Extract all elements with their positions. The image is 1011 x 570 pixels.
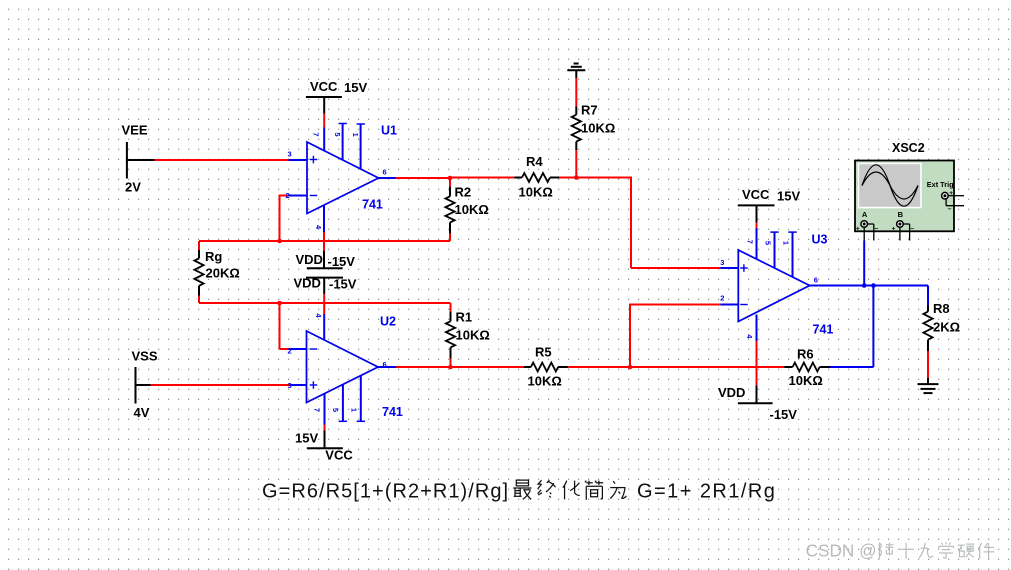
svg-text:U3: U3 bbox=[812, 233, 828, 247]
svg-text:7: 7 bbox=[313, 408, 322, 412]
svg-text:6: 6 bbox=[814, 275, 818, 284]
svg-text:3: 3 bbox=[288, 381, 292, 390]
svg-text:741: 741 bbox=[362, 198, 383, 212]
svg-text:A: A bbox=[862, 210, 868, 219]
svg-text:VCC: VCC bbox=[310, 79, 338, 94]
svg-text:U2: U2 bbox=[380, 315, 396, 329]
svg-text:7: 7 bbox=[745, 240, 754, 244]
svg-text:1: 1 bbox=[351, 133, 360, 137]
svg-text:R5: R5 bbox=[535, 345, 552, 360]
svg-text:15V: 15V bbox=[777, 189, 800, 204]
svg-text:6: 6 bbox=[383, 360, 387, 369]
svg-text:5: 5 bbox=[331, 408, 340, 412]
svg-text:XSC2: XSC2 bbox=[892, 141, 925, 155]
svg-text:-15V: -15V bbox=[770, 407, 798, 422]
svg-text:15V: 15V bbox=[344, 80, 367, 95]
svg-text:6: 6 bbox=[383, 168, 387, 177]
svg-text:+: + bbox=[892, 225, 896, 232]
svg-text:7: 7 bbox=[311, 132, 320, 136]
svg-text:2: 2 bbox=[286, 191, 290, 200]
svg-text:R6: R6 bbox=[797, 347, 814, 362]
svg-text:Rg: Rg bbox=[205, 249, 222, 264]
svg-text:2: 2 bbox=[288, 347, 292, 356]
svg-text:4V: 4V bbox=[134, 405, 150, 420]
svg-text:R1: R1 bbox=[456, 310, 473, 325]
svg-text:G=1+ 2R1/Rg: G=1+ 2R1/Rg bbox=[637, 481, 776, 503]
svg-text:5: 5 bbox=[333, 132, 342, 136]
svg-text:10KΩ: 10KΩ bbox=[456, 328, 490, 343]
svg-text:10KΩ: 10KΩ bbox=[519, 184, 553, 199]
svg-text:-15V: -15V bbox=[329, 277, 357, 292]
svg-text:R4: R4 bbox=[526, 154, 543, 169]
svg-text:VSS: VSS bbox=[132, 348, 158, 363]
svg-text:VCC: VCC bbox=[742, 187, 770, 202]
svg-text:R2: R2 bbox=[455, 185, 472, 200]
svg-text:+: + bbox=[856, 225, 860, 232]
svg-text:CSDN @: CSDN @ bbox=[806, 541, 877, 561]
svg-text:−: − bbox=[948, 206, 952, 213]
svg-text:1: 1 bbox=[350, 408, 359, 412]
svg-text:10KΩ: 10KΩ bbox=[528, 374, 562, 389]
svg-text:Ext Trig: Ext Trig bbox=[927, 180, 954, 189]
svg-text:−: − bbox=[910, 225, 914, 232]
svg-text:741: 741 bbox=[382, 405, 403, 419]
svg-text:VDD: VDD bbox=[718, 385, 745, 400]
svg-text:R8: R8 bbox=[933, 301, 950, 316]
svg-text:-15V: -15V bbox=[328, 254, 356, 269]
svg-text:1: 1 bbox=[782, 241, 791, 245]
svg-text:VEE: VEE bbox=[122, 122, 148, 137]
svg-text:10KΩ: 10KΩ bbox=[455, 202, 489, 217]
svg-text:VDD: VDD bbox=[294, 275, 321, 290]
svg-text:G=R6/R5[1+(R2+R1)/Rg]: G=R6/R5[1+(R2+R1)/Rg] bbox=[262, 481, 509, 503]
svg-text:10KΩ: 10KΩ bbox=[789, 373, 823, 388]
svg-text:3: 3 bbox=[288, 150, 292, 159]
svg-text:B: B bbox=[898, 210, 904, 219]
svg-text:3: 3 bbox=[720, 258, 724, 267]
svg-text:−: − bbox=[875, 225, 879, 232]
svg-text:5: 5 bbox=[763, 241, 772, 245]
svg-text:10KΩ: 10KΩ bbox=[581, 120, 615, 135]
svg-text:U1: U1 bbox=[381, 124, 397, 138]
svg-text:2V: 2V bbox=[125, 180, 141, 195]
svg-text:20KΩ: 20KΩ bbox=[206, 266, 240, 281]
svg-text:VDD: VDD bbox=[296, 252, 323, 267]
svg-text:R7: R7 bbox=[581, 103, 598, 118]
svg-text:2KΩ: 2KΩ bbox=[933, 320, 960, 335]
svg-text:15V: 15V bbox=[295, 430, 318, 445]
svg-text:741: 741 bbox=[813, 323, 834, 337]
svg-text:VCC: VCC bbox=[325, 448, 353, 463]
svg-text:2: 2 bbox=[720, 294, 724, 303]
